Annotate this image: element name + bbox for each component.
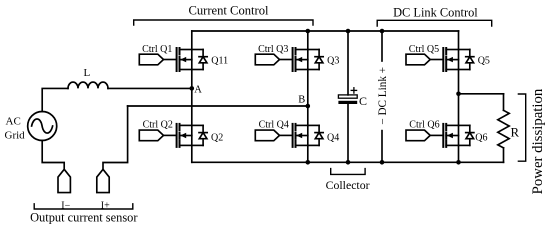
junction: leg2 bottom on rail xyxy=(306,160,311,165)
resistor R xyxy=(498,110,509,148)
wire: DC link marker top stub xyxy=(381,31,383,61)
capacitor C positive plate xyxy=(338,95,357,98)
svg-text:Ctrl Q3: Ctrl Q3 xyxy=(258,44,288,55)
junction: capacitor branch bottom on rail xyxy=(346,160,351,165)
svg-text:Ctrl Q6: Ctrl Q6 xyxy=(409,120,439,131)
svg-text:Q5: Q5 xyxy=(478,56,490,67)
bracket: output current sensor group xyxy=(34,204,133,209)
current sensor I+ probe xyxy=(97,169,109,192)
transistor Q5 xyxy=(443,48,458,71)
svg-text:Collector: Collector xyxy=(326,178,370,192)
junction: leg2 top on rail xyxy=(306,29,311,34)
svg-text:− DC Link +: − DC Link + xyxy=(377,67,389,125)
wire: leg 3 vertical (Q5/Q6) xyxy=(458,31,460,162)
svg-text:Ctrl Q4: Ctrl Q4 xyxy=(259,120,289,131)
node A junction xyxy=(190,86,195,91)
inductor L xyxy=(68,82,108,88)
wire: inductor to node A xyxy=(108,87,192,89)
svg-text:Current Control: Current Control xyxy=(188,4,269,18)
svg-text:Power dissipation: Power dissipation xyxy=(530,88,546,194)
svg-text:B: B xyxy=(298,95,305,106)
wire: DC link marker bottom stub xyxy=(381,131,383,163)
svg-text:Q2: Q2 xyxy=(211,133,223,144)
diode Q2 xyxy=(192,125,207,145)
transistor Q6 xyxy=(443,124,458,147)
bracket: collector tap xyxy=(331,169,365,175)
junction: capacitor branch top on rail xyxy=(346,29,351,34)
svg-text:AC: AC xyxy=(6,116,21,128)
svg-text:L: L xyxy=(84,67,91,79)
transistor Q3 xyxy=(293,48,308,71)
transistor Q2 xyxy=(177,124,192,147)
wire: resistor branch bottom xyxy=(503,148,505,162)
bracket: power dissipation group xyxy=(518,94,525,161)
transistor Q4 xyxy=(293,124,308,147)
svg-text:Ctrl Q5: Ctrl Q5 xyxy=(409,44,439,55)
bracket: Current Control section xyxy=(134,20,313,25)
diode Q4 xyxy=(308,125,323,145)
junction: DC link marker top on rail xyxy=(380,29,385,34)
wire: capacitor branch top xyxy=(347,31,349,95)
gate driver Ctrl Q6 xyxy=(406,130,443,141)
wire: node B branch to current sensor I+ xyxy=(103,106,128,169)
wire: resistor branch top xyxy=(503,94,505,111)
svg-text:R: R xyxy=(511,125,520,139)
svg-text:A: A xyxy=(194,84,202,95)
svg-text:Q4: Q4 xyxy=(327,133,339,144)
capacitor C negative plate xyxy=(338,101,357,104)
bracket: DC Link Control section xyxy=(377,20,492,26)
svg-text:Ctrl Q1: Ctrl Q1 xyxy=(142,44,172,55)
diode Q11 xyxy=(192,50,207,70)
wire: phase leg 1 vertical (Q1/Q2) xyxy=(191,31,193,162)
AC grid source V1 xyxy=(28,112,57,141)
svg-text:Ctrl Q2: Ctrl Q2 xyxy=(143,120,173,131)
gate driver Ctrl Q2 xyxy=(139,130,176,141)
svg-text:Grid: Grid xyxy=(5,130,26,142)
junction: DC link marker bottom on rail xyxy=(380,160,385,165)
svg-text:Q11: Q11 xyxy=(211,56,228,67)
node B junction xyxy=(306,104,311,109)
label: capacitor + polarity xyxy=(351,88,356,93)
gate driver Ctrl Q5 xyxy=(406,54,443,65)
wire: capacitor branch bottom xyxy=(347,104,349,162)
gate driver Ctrl Q1 xyxy=(139,54,176,65)
gate driver Ctrl Q4 xyxy=(255,130,292,141)
diode Q6 xyxy=(459,125,474,145)
gate driver Ctrl Q3 xyxy=(255,54,292,65)
junction: Q5/Q6 midpoint node xyxy=(456,92,461,97)
diode Q3 xyxy=(308,50,323,70)
svg-text:C: C xyxy=(359,94,367,108)
svg-text:Output current sensor: Output current sensor xyxy=(30,211,138,225)
wire: AC source bottom to current sensor I- xyxy=(42,140,64,169)
wire: bottom DC bus rail xyxy=(192,161,504,163)
svg-text:DC Link Control: DC Link Control xyxy=(393,5,478,19)
diode Q5 xyxy=(459,50,474,70)
wire: midpoint node to resistor branch xyxy=(459,93,504,95)
current sensor I- probe xyxy=(58,169,70,192)
wire: phase leg 2 vertical (Q3/Q4) xyxy=(307,31,309,162)
wire: top DC bus rail xyxy=(192,30,459,32)
wire: sensor return to node B xyxy=(128,105,308,107)
transistor Q1 xyxy=(177,48,192,71)
junction: leg3 bottom on rail xyxy=(456,160,461,165)
wire: AC source top to inductor xyxy=(42,88,68,111)
svg-text:Q3: Q3 xyxy=(327,56,339,67)
svg-text:Q6: Q6 xyxy=(475,133,487,144)
